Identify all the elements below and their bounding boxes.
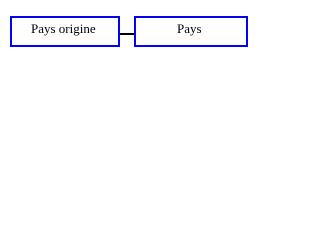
wire: relationship connector <box>120 33 135 35</box>
label: Pays origine <box>31 22 96 35</box>
entity box: Pays origine <box>10 16 120 47</box>
label: Pays <box>177 22 202 35</box>
entity box: Pays <box>134 16 248 47</box>
